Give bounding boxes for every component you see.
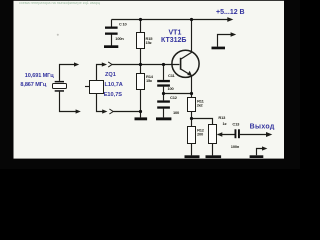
wire: R15 top lead — [140, 20, 142, 34]
wire: C10 top lead — [111, 20, 113, 28]
arrowhead: output — [266, 132, 272, 137]
node: base-R15/R14 junction — [139, 63, 142, 66]
svg-text:схема генератора на пьезофильт: схема генератора на пьезофильтре zq1 ква… — [19, 1, 101, 5]
svg-text:VT1: VT1 — [169, 29, 182, 36]
svg-text:10,691 МГц: 10,691 МГц — [25, 73, 54, 79]
crystal ZQ (alternative) — [53, 81, 67, 92]
svg-text:100: 100 — [168, 86, 175, 91]
svg-text:C11: C11 — [168, 73, 175, 78]
wire: ZQ1 bottom line to ground node — [113, 111, 140, 113]
ground (under C10) — [104, 45, 118, 48]
potentiometer R13 — [209, 115, 227, 144]
arrowhead: R13 wiper — [217, 132, 222, 136]
wire: bottom-right common riser — [257, 149, 264, 156]
node: ZQ1 bottom ground junction — [139, 110, 142, 113]
svg-text:ZQ1: ZQ1 — [105, 72, 116, 78]
wire: output line — [240, 134, 269, 136]
node: C11-C12 junction — [162, 92, 165, 95]
schematic white area — [14, 1, 285, 159]
wire: ZQ1 top pin — [97, 65, 104, 81]
wire: R14 top lead — [140, 65, 142, 74]
filter ZQ1 — [90, 72, 123, 98]
wire: C11-C12 link — [163, 87, 165, 101]
capacitor C12 — [157, 95, 180, 115]
svg-text:C 10: C 10 — [119, 22, 128, 27]
ground bar (bottom-right common) — [250, 155, 264, 158]
svg-text:Выход: Выход — [250, 123, 275, 130]
wire: R13 wiper to C13 — [218, 134, 235, 136]
svg-text:15к: 15к — [146, 40, 152, 45]
arrowhead: ZQ1 top — [102, 62, 107, 66]
chevron: base line start — [108, 62, 112, 67]
dust speck — [57, 34, 59, 36]
svg-text:100: 100 — [173, 110, 180, 115]
wire: C12 bottom lead — [163, 109, 165, 118]
wire: C11 top lead — [163, 65, 165, 80]
wire: collector lead — [191, 20, 193, 53]
arrowhead: ZQ1 bottom — [102, 109, 107, 113]
resistor R11 — [188, 98, 205, 112]
svg-text:L10,7A: L10,7A — [105, 82, 123, 88]
resistor R15 — [137, 33, 154, 49]
node: rail-R15 junction — [139, 18, 142, 21]
wire: crystal top lead — [60, 65, 76, 81]
wire: +V top rail — [112, 19, 230, 21]
wire: base line — [112, 64, 179, 66]
wire: C10 bottom lead — [111, 35, 113, 46]
svg-text:200: 200 — [197, 132, 204, 137]
wire: crystal bottom lead — [60, 92, 78, 112]
wire: node to R13 top — [192, 119, 213, 125]
resistor R12 — [188, 127, 205, 144]
ground (under R14) — [135, 117, 148, 120]
transistor VT1 — [161, 29, 199, 77]
wire: R12 bottom lead — [191, 144, 193, 156]
ground bar (top-right common) — [212, 47, 226, 50]
arrowhead: bottom-right common — [262, 146, 267, 150]
node: R11-R12-R13 junction — [190, 117, 193, 120]
wire: top-right common riser — [218, 35, 233, 47]
capacitor C13 — [231, 122, 240, 149]
svg-text:2к2: 2к2 — [197, 103, 204, 108]
node: rail-collector junction — [190, 18, 193, 21]
capacitor C11 — [157, 73, 175, 91]
wire: ZQ1 bottom pin — [97, 94, 104, 112]
svg-text:100н: 100н — [231, 144, 240, 149]
wire: emitter node link — [164, 93, 192, 95]
ground (under C12) — [156, 117, 171, 120]
video frame black background — [0, 0, 300, 169]
ground (under R13) — [206, 155, 222, 158]
svg-text:+5...12 В: +5...12 В — [216, 9, 245, 16]
svg-text:R13: R13 — [218, 115, 226, 120]
node: base-C11 junction — [162, 63, 165, 66]
svg-text:КТ312Б: КТ312Б — [161, 37, 186, 44]
svg-text:E10,7S: E10,7S — [104, 92, 123, 98]
svg-text:C13: C13 — [232, 122, 240, 127]
chevron: bottom line start — [109, 109, 113, 114]
wire: R11 bottom lead — [191, 112, 193, 127]
svg-text:8,867 МГц: 8,867 МГц — [20, 82, 46, 88]
svg-text:15к: 15к — [146, 78, 152, 83]
wire: ZQ1 left stub — [85, 86, 90, 88]
arrowhead: +V rail — [227, 17, 233, 22]
svg-text:100n: 100n — [115, 36, 124, 41]
svg-text:1к: 1к — [223, 121, 227, 126]
arrowhead: crystal bottom — [76, 109, 81, 113]
wire: R15 bottom lead — [140, 49, 142, 65]
wire: R14 bottom lead — [140, 90, 142, 118]
arrowhead: top-right common — [231, 32, 237, 36]
wire: emitter lead — [191, 76, 193, 98]
resistor R14 — [137, 74, 154, 90]
capacitor C10 — [105, 22, 128, 41]
ground (under R12) — [185, 155, 200, 158]
node: emitter junction — [190, 92, 193, 95]
svg-text:C12: C12 — [170, 95, 178, 100]
arrowhead: crystal top — [74, 62, 79, 66]
wire: R13 bottom lead — [212, 144, 214, 156]
